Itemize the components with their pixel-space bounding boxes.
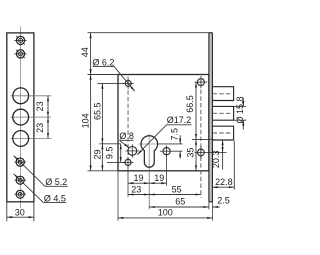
extension line top	[88, 32, 209, 34]
screw hole faceplate bottom	[195, 146, 227, 158]
hole right small	[163, 146, 170, 157]
dimension 23 lower	[47, 117, 49, 138]
bolt 3	[212, 126, 233, 140]
extension body left edge down	[117, 171, 119, 221]
svg-text:19: 19	[154, 173, 164, 183]
screw hole top 2	[14, 50, 26, 58]
screw hole bottom 3	[15, 190, 27, 198]
dimension 104	[90, 75, 92, 171]
extension keyhole level left	[100, 143, 122, 145]
svg-text:23: 23	[35, 101, 45, 111]
dimension 20.3	[222, 140, 224, 153]
extension lower hole column down	[127, 166, 129, 197]
leader Ø5.2	[14, 156, 45, 187]
faceplate edge view	[209, 33, 213, 202]
svg-text:Ø 6.2: Ø 6.2	[92, 57, 114, 67]
dimension 44	[90, 33, 92, 75]
bolt 2	[212, 106, 233, 120]
extension faceplate front down	[211, 202, 213, 221]
extension faceplate back down	[208, 202, 210, 210]
dimension 7.5	[179, 135, 181, 144]
extension right circle level	[160, 150, 183, 152]
lock body	[118, 75, 209, 171]
hole Ø6.2	[123, 78, 134, 89]
svg-text:2.5: 2.5	[217, 195, 230, 205]
extension keyhole column down	[148, 169, 150, 210]
extension hole Ø6.2 level	[97, 82, 124, 84]
svg-text:Ø 15.8: Ø 15.8	[235, 96, 245, 123]
hole circle 1	[11, 95, 52, 97]
extension lower hole level	[107, 161, 124, 163]
svg-text:9.5: 9.5	[105, 147, 115, 160]
hole circle 2	[11, 116, 52, 118]
centerline faceplate	[20, 27, 22, 209]
svg-text:19: 19	[133, 173, 143, 183]
faceplate outline	[7, 33, 34, 202]
screw hole bottom 1	[15, 158, 27, 166]
dimension 9.5	[120, 144, 122, 163]
svg-text:66.5: 66.5	[185, 95, 195, 113]
dimension 22.8	[233, 141, 235, 190]
dimension 19 left	[128, 182, 149, 184]
svg-text:22.8: 22.8	[215, 177, 233, 187]
hole Ø8	[126, 144, 139, 157]
screw hole faceplate top	[195, 76, 208, 88]
svg-text:23: 23	[35, 123, 45, 133]
svg-text:65.5: 65.5	[92, 102, 102, 120]
svg-text:7.5: 7.5	[170, 128, 180, 141]
dimension 29	[101, 144, 103, 171]
dimension Ø15.8	[234, 105, 246, 107]
dimension 2.5	[212, 206, 219, 208]
dimension 23 upper	[47, 96, 49, 117]
hole circle 3	[11, 138, 52, 140]
svg-text:23: 23	[131, 185, 141, 195]
extension keyhole level right	[159, 143, 183, 145]
dimension 65.5	[101, 83, 103, 143]
svg-text:55: 55	[172, 184, 182, 194]
svg-text:20.3: 20.3	[211, 151, 221, 169]
hole lower small	[122, 157, 133, 168]
svg-text:29: 29	[93, 149, 103, 159]
svg-text:44: 44	[80, 47, 90, 57]
centerline hole column	[127, 77, 129, 160]
svg-text:104: 104	[81, 113, 91, 128]
centerline faceplate screw holes	[200, 76, 202, 197]
dimension 23 bottom	[128, 194, 149, 196]
dimension 55	[149, 194, 201, 196]
dimension 100	[118, 217, 213, 219]
extension line chain point	[192, 138, 214, 140]
dimension 65	[149, 206, 209, 208]
extension body top left	[88, 74, 119, 76]
svg-text:65: 65	[175, 197, 185, 207]
svg-text:Ø17.2: Ø17.2	[167, 115, 192, 125]
leader Ø4.5	[14, 174, 44, 203]
svg-text:Ø 4.5: Ø 4.5	[44, 194, 66, 204]
svg-text:30: 30	[15, 208, 25, 218]
svg-text:35: 35	[185, 148, 195, 158]
svg-text:Ø 8: Ø 8	[119, 131, 134, 141]
extension body bottom left	[88, 170, 119, 172]
dimension 35	[195, 139, 197, 170]
dimension 66.5	[195, 82, 197, 139]
svg-text:100: 100	[158, 208, 173, 218]
screw hole bottom 2	[15, 176, 27, 184]
keyhole euro profile	[141, 136, 158, 168]
dimension 19 right	[149, 182, 166, 184]
keyhole centerlines	[148, 134, 150, 169]
bolt 1	[212, 87, 233, 101]
screw hole top 1	[14, 36, 26, 44]
extension right circle column down	[166, 155, 168, 186]
svg-text:Ø 5.2: Ø 5.2	[45, 177, 67, 187]
dimension 30	[6, 202, 8, 221]
